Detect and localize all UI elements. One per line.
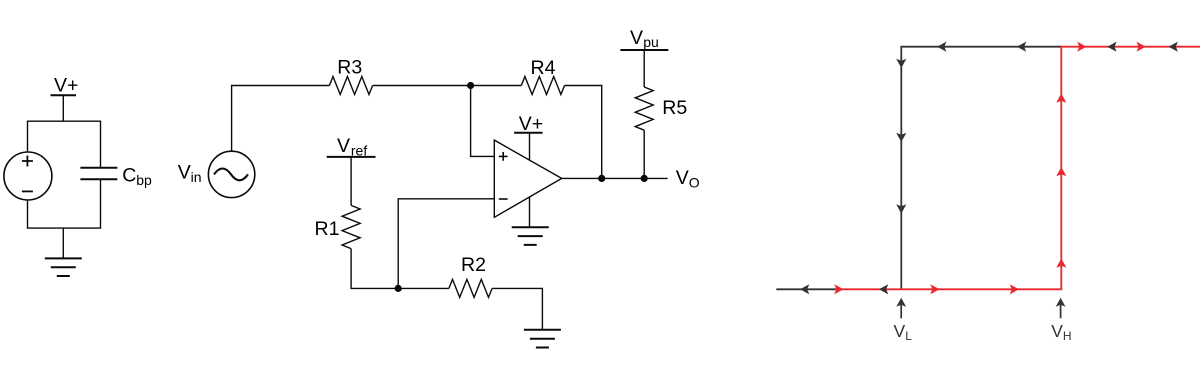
node C junction dot <box>598 175 605 182</box>
wire R5 to output node <box>643 130 645 178</box>
wire node A down to op-amp plus input <box>471 86 495 157</box>
Vin sine wave <box>214 169 248 181</box>
wire R1 to node B <box>351 249 398 289</box>
arrow red up (right vertical 2) <box>1056 167 1066 176</box>
label V+ (left supply) <box>54 75 78 97</box>
label R1 <box>315 218 340 240</box>
node B junction dot <box>395 285 402 292</box>
resistor R5 <box>635 87 653 130</box>
svg-text:V: V <box>630 27 643 49</box>
wire Vin to top rail <box>232 86 330 152</box>
svg-text:bp: bp <box>136 172 152 188</box>
wire op-amp output <box>562 177 668 179</box>
wire Vref stem to R1 <box>350 157 352 206</box>
svg-text:R2: R2 <box>461 254 486 276</box>
resistor R2 <box>449 279 492 297</box>
ground (R2) <box>524 330 561 348</box>
svg-text:V+: V+ <box>54 75 78 97</box>
wire node B to R2 <box>398 287 449 289</box>
V1 plus mark <box>22 156 33 167</box>
label V_pu <box>630 27 659 50</box>
source Vin circle <box>208 151 254 197</box>
svg-text:pu: pu <box>643 34 659 50</box>
wire node A to R4 <box>471 85 522 87</box>
arrow black down (left vertical 3) <box>896 204 906 213</box>
svg-text:R4: R4 <box>531 57 556 79</box>
graph: red rising path <box>835 47 1200 290</box>
arrow black down (left vertical 1) <box>896 59 906 68</box>
svg-text:R3: R3 <box>337 57 362 79</box>
svg-text:V: V <box>337 135 350 157</box>
V1 minus mark <box>22 190 33 192</box>
arrow black left (top 2) <box>1017 42 1026 52</box>
svg-text:L: L <box>905 329 912 343</box>
wire R3 to node A <box>373 85 471 87</box>
label V+ (op-amp) <box>519 113 543 135</box>
resistor R4 <box>521 77 564 95</box>
op-amp plus pin mark <box>499 152 508 161</box>
label V_L <box>894 321 913 343</box>
node D junction dot <box>641 175 648 182</box>
V_L axis marker arrow <box>896 298 906 319</box>
arrow red up (right vertical 1) <box>1056 94 1066 103</box>
wire V+ stem to op-amp <box>529 133 531 160</box>
ground (left supply) <box>45 258 82 276</box>
arrow red right (bottom 2) <box>834 284 843 294</box>
svg-text:O: O <box>689 174 700 190</box>
resistor R1 <box>342 205 360 248</box>
arrow black left (bottom 1) <box>800 284 809 294</box>
arrow red up (right vertical 3) <box>1056 259 1066 268</box>
svg-text:C: C <box>122 165 136 187</box>
arrow black left (bottom 3) <box>879 284 888 294</box>
arrow red right (top 5) <box>1137 42 1146 52</box>
arrow red right (bottom 4) <box>930 284 939 294</box>
node A junction dot <box>467 82 474 89</box>
svg-text:V: V <box>894 321 906 341</box>
resistor R3 <box>329 77 372 95</box>
V_H axis marker arrow <box>1056 298 1066 319</box>
label R4 <box>531 57 556 79</box>
wire op-amp to ground <box>529 198 531 228</box>
svg-text:V: V <box>676 167 689 189</box>
wire R2 to ground <box>492 288 542 329</box>
hysteresis graph <box>776 47 1200 290</box>
op-amp minus pin mark <box>499 198 508 200</box>
wire ground stem (left) <box>62 228 64 258</box>
label R2 <box>461 254 486 276</box>
arrow black down (left vertical 2) <box>896 133 906 142</box>
wire node B up to op-amp minus input <box>398 199 494 289</box>
svg-text:H: H <box>1063 329 1072 343</box>
label V_O <box>676 167 700 190</box>
capacitor C_bp plates <box>80 168 117 180</box>
arrow black left (top 6) <box>1169 42 1178 52</box>
V_ref terminal bar <box>327 156 376 158</box>
arrow red right (bottom 5) <box>1010 284 1019 294</box>
op-amp U1 <box>494 140 561 217</box>
wire R4 to output node <box>565 86 602 179</box>
arrow black left (top 4) <box>1107 42 1116 52</box>
label C_bp <box>122 165 152 188</box>
wire V+ stem <box>62 95 64 121</box>
label V_in <box>178 162 202 185</box>
ground (op-amp) <box>512 227 549 245</box>
svg-text:R5: R5 <box>662 97 687 119</box>
wire top rail of bypass loop <box>28 121 101 167</box>
svg-text:V: V <box>178 162 191 184</box>
arrow black left (top 1) <box>937 42 946 52</box>
graph: bottom black segment <box>776 288 840 290</box>
V_pu terminal bar <box>620 49 668 51</box>
V+ terminal bar <box>51 94 77 96</box>
arrow red right (top 3) <box>1077 42 1086 52</box>
label V_H <box>1051 321 1071 343</box>
label R3 <box>337 57 362 79</box>
graph: black falling path top segment <box>901 47 1061 290</box>
label R5 <box>662 97 687 119</box>
voltage source V1 <box>4 152 52 200</box>
label V_ref <box>337 135 367 158</box>
svg-text:V: V <box>1051 321 1063 341</box>
svg-text:R1: R1 <box>315 218 340 240</box>
wire bottom rail of bypass loop <box>28 179 101 228</box>
svg-text:in: in <box>191 169 202 185</box>
V+ terminal bar (op-amp) <box>514 132 542 134</box>
wire Vpu stem to R5 <box>643 50 645 87</box>
